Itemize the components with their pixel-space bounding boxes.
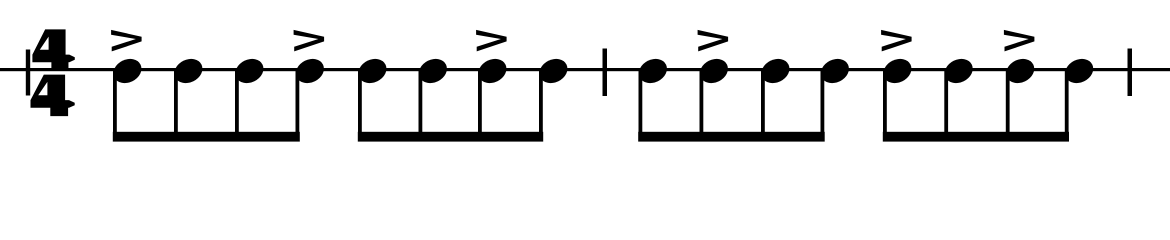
accent over note 13 bbox=[881, 30, 912, 52]
note 9 stem bbox=[639, 69, 643, 142]
note 13 stem bbox=[883, 69, 887, 142]
note 6 head bbox=[415, 54, 451, 87]
note 5 stem bbox=[358, 69, 362, 142]
note 1 stem bbox=[113, 69, 117, 142]
note 10 head bbox=[696, 54, 732, 87]
note 16 stem bbox=[1065, 69, 1069, 142]
note 11 head bbox=[757, 54, 793, 87]
note 14 head bbox=[941, 54, 977, 87]
note 7 head bbox=[474, 54, 510, 87]
note 2 stem bbox=[174, 69, 178, 142]
note 11 stem bbox=[761, 69, 765, 142]
note 4 head bbox=[292, 54, 328, 87]
note 15 stem bbox=[1006, 69, 1010, 142]
opening barline bbox=[26, 50, 30, 96]
beam group 1 bbox=[113, 132, 300, 142]
note 8 stem bbox=[539, 69, 543, 142]
note 3 head bbox=[231, 54, 267, 87]
final barline bbox=[1128, 49, 1133, 97]
accent over note 10 bbox=[698, 30, 729, 52]
note 3 stem bbox=[235, 69, 239, 142]
note 12 head bbox=[817, 54, 853, 87]
beam group 2 bbox=[358, 132, 543, 142]
note 2 head bbox=[170, 54, 206, 87]
accent over note 1 bbox=[111, 30, 142, 52]
note 6 stem bbox=[419, 69, 423, 142]
note 9 head bbox=[635, 54, 671, 87]
note 14 stem bbox=[944, 69, 948, 142]
beam group 4 bbox=[883, 132, 1069, 142]
note 15 head bbox=[1002, 54, 1038, 87]
accent over note 4 bbox=[294, 30, 325, 52]
time signature numeral 4 (top) bbox=[32, 29, 74, 70]
note 10 stem bbox=[700, 69, 704, 142]
note 12 stem bbox=[821, 69, 825, 142]
note 7 stem bbox=[478, 69, 482, 142]
staff line bbox=[0, 68, 1170, 71]
note 13 head bbox=[879, 54, 915, 87]
accent over note 7 bbox=[476, 30, 507, 52]
note 5 head bbox=[354, 54, 390, 87]
note 8 head bbox=[535, 54, 571, 87]
beam group 3 bbox=[638, 132, 825, 142]
barline between measures bbox=[603, 49, 608, 97]
note 1 head bbox=[109, 54, 145, 87]
note 4 stem bbox=[296, 69, 300, 142]
accent over note 15 bbox=[1004, 30, 1035, 52]
note 16 head bbox=[1061, 54, 1097, 87]
time signature numeral 4 (bottom) bbox=[31, 75, 75, 117]
